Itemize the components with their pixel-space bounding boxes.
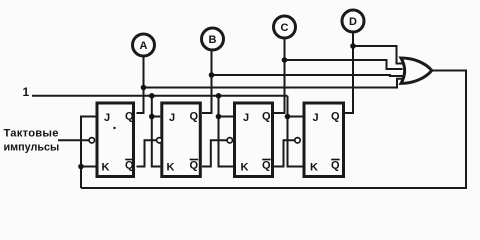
wire J input stub FF2 (152, 116, 161, 118)
wire Q2 output up to circle B and OR tap (202, 50, 212, 113)
node D circle (342, 10, 364, 32)
svg-text:Q: Q (262, 111, 271, 123)
wire OR gate output feedback (right edge and bottom) (81, 71, 466, 189)
wire J input stub FF3 (219, 116, 234, 118)
svg-text:K: K (241, 162, 249, 174)
svg-text:J: J (104, 112, 110, 124)
svg-text:Q: Q (331, 111, 340, 123)
svg-text:Q: Q (331, 160, 340, 172)
wire Q3 output up to circle C and OR tap (274, 38, 285, 113)
svg-text:K: K (310, 162, 318, 174)
svg-text:Q: Q (262, 160, 271, 172)
flip-flop FF2 box (162, 103, 201, 177)
svg-text:J: J (313, 112, 319, 124)
clock bubble FF2 (157, 138, 162, 143)
node C circle (274, 16, 296, 38)
junction dot A tap (141, 85, 147, 91)
wire Q1 output up to circle A and OR tap (137, 56, 144, 113)
gate OR (4-input) body (401, 58, 432, 83)
svg-text:B: B (209, 34, 217, 46)
wire logic-1 bus (32, 95, 288, 97)
speck inside FF1 (113, 127, 115, 129)
wire OR input line from C (285, 60, 403, 69)
junction dot J FF2 (149, 114, 155, 120)
junction dot C tap (282, 57, 288, 63)
junction dot D tap (350, 43, 356, 49)
wire J/K feed of FF4 (bus corner) (288, 96, 303, 167)
flip-flop FF4 box (304, 103, 344, 177)
svg-text:Q: Q (125, 111, 134, 123)
svg-text:1: 1 (23, 85, 30, 99)
wire J input stub FF4 (288, 116, 303, 118)
svg-text:K: K (167, 162, 175, 174)
wire OR input line from A (144, 79, 403, 88)
clock bubble FF1 (89, 138, 94, 143)
svg-text:Q: Q (125, 160, 134, 172)
wire K input stub FF1 (81, 166, 96, 168)
svg-text:Q: Q (190, 111, 199, 123)
wire Qbar3 to clock bubble of FF4 (274, 140, 295, 166)
wire OR input line from B (212, 75, 403, 76)
clock bubble FF3 (227, 138, 232, 143)
svg-text:A: A (140, 40, 148, 52)
junction dot bus/FF2 (149, 93, 155, 99)
wire Qbar1 to clock bubble of FF2 (137, 140, 157, 166)
svg-text:импульсы: импульсы (4, 142, 60, 154)
junction dot bus/FF3 (216, 93, 222, 99)
wire OR input line from D (353, 46, 403, 64)
svg-text:C: C (281, 22, 289, 34)
clock bubble FF4 (295, 138, 300, 143)
wire J/K feed of FF3 (219, 96, 234, 167)
junction dot J FF4 (285, 114, 291, 120)
wire J/K feed of FF2 (152, 96, 161, 167)
junction dot B tap (209, 72, 215, 78)
svg-text:D: D (349, 16, 357, 28)
svg-text:J: J (243, 112, 249, 124)
wire J/K feed of FF1 from feedback (81, 117, 96, 189)
flip-flop FF3 box (235, 103, 273, 177)
svg-text:J: J (169, 112, 175, 124)
svg-text:Тактовые: Тактовые (4, 128, 59, 140)
node A circle (133, 34, 155, 56)
wire Qbar2 to clock bubble of FF3 (202, 140, 228, 166)
wire clock input line (58, 139, 89, 141)
junction dot K FF1 (78, 164, 84, 170)
flip-flop FF1 box (97, 103, 134, 177)
svg-text:Q: Q (190, 160, 199, 172)
svg-text:K: K (102, 162, 110, 174)
node B circle (202, 28, 224, 50)
junction dot J FF3 (216, 114, 222, 120)
wire Q4 output up to circle D and OR tap (345, 32, 353, 113)
